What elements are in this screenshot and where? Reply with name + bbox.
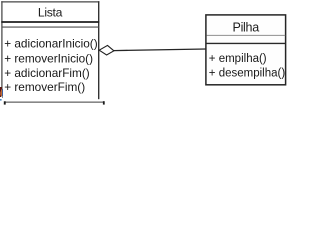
association line Lista-Pilha xyxy=(114,49,206,51)
Pilha attribute/operations divider xyxy=(207,42,286,44)
Lista attribute/operations divider xyxy=(2,26,99,28)
colored artifact strip at left edge xyxy=(0,87,3,101)
class box Lista: frame (open bottom) xyxy=(1,1,99,99)
svg-text:+ empilha(): + empilha() xyxy=(209,53,267,65)
svg-text:+ adicionarInicio(): + adicionarInicio() xyxy=(4,36,98,50)
svg-text:Pilha: Pilha xyxy=(233,20,260,34)
svg-text:+ adicionarFim(): + adicionarFim() xyxy=(4,66,90,80)
cut-off class box below Lista: top edge xyxy=(4,101,105,104)
Pilha title divider xyxy=(207,34,286,36)
svg-text:+ removerFim(): + removerFim() xyxy=(4,80,85,94)
svg-text:Lista: Lista xyxy=(38,5,63,19)
class box Pilha: frame xyxy=(206,15,286,85)
svg-text:+ desempilha(): + desempilha() xyxy=(209,67,286,79)
aggregation diamond at Lista end xyxy=(99,45,114,55)
Lista title divider xyxy=(1,21,99,23)
svg-text:+ removerInicio(): + removerInicio() xyxy=(4,51,93,65)
